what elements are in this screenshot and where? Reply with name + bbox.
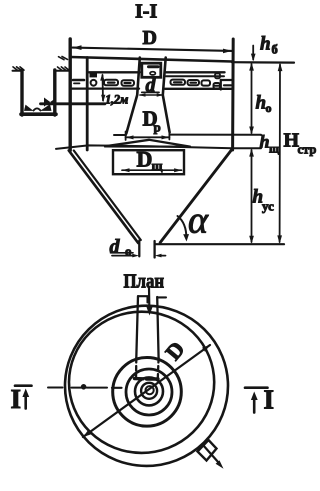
water band bottom line right [165,88,233,90]
svg-text:o: o [266,101,272,115]
dimension d0 arrows [112,255,133,257]
dimension line Dp [126,136,170,138]
right band box 4 [214,83,221,89]
ground hatching right [58,67,70,71]
svg-text:h: h [260,132,270,152]
svg-text:D: D [143,27,157,49]
central pipe left wall with flare [126,58,140,134]
valve (bowtie) on inlet pipe [44,98,50,107]
outflow arrow [203,445,219,463]
horizontal centerline [48,387,63,389]
pit bottom [21,112,56,116]
cone right slope [160,150,232,243]
level line at flare bottom left [114,134,126,136]
dimension 1,2m arrow [102,75,105,101]
svg-text:р: р [154,120,161,135]
right band box 1 [171,80,186,85]
section marker right [245,386,268,389]
inner rim circle [69,312,214,453]
band box 1 [104,80,118,86]
dimension d arrows [140,94,163,96]
tank left wall [68,39,71,151]
svg-text:щ: щ [269,142,280,156]
center circle ring 4 [141,383,157,399]
outlet stub (plan, lower right) [198,440,217,461]
pit bottom right wedge [40,104,52,111]
outer rim circle [65,306,228,466]
svg-text:I: I [11,384,22,414]
dimension hus line [251,150,253,242]
dashed channel bottom in plan [135,377,159,381]
dimension line D [73,48,233,51]
svg-text:ус: ус [262,199,274,214]
svg-text:стр: стр [298,143,317,157]
angle alpha arc [178,216,187,239]
water level mark in left trough [73,79,84,82]
right band box 3 [202,80,211,85]
svg-text:1,2м: 1,2м [105,93,129,107]
outlet right wall [153,241,155,258]
grass ticks at rim left of wall [59,57,68,60]
plan inlet channel left wall [136,296,138,358]
ground line left of pit [13,70,23,72]
bottom level line [155,243,284,245]
right trough inner wall [220,80,222,90]
dimension hb arrow [252,46,254,60]
level line flare bottom to right wall [169,134,261,136]
inflow arrow [148,288,151,307]
tank top rim [71,57,233,62]
channel right top tick [158,296,167,298]
shield box Dsh [113,150,184,174]
svg-text:План: План [124,270,165,292]
central distribution box [142,63,161,77]
svg-text:d: d [110,236,121,258]
svg-text:α: α [188,200,209,242]
water level mark in right trough [224,84,231,86]
center circle ring 1 [113,358,182,427]
section marker left [15,384,32,387]
central pipe right wall with flare [163,58,170,133]
center small circle [146,386,154,394]
inlet pipe from pit [41,102,106,105]
svg-text:D: D [137,147,153,172]
outlet left wall [138,241,140,257]
pit left wall [20,70,23,115]
channel top tick and jog [139,296,148,302]
right band small box 5 [215,74,220,79]
svg-text:б: б [272,43,278,57]
trough inner wall left [86,58,89,151]
pit bottom left wedge [24,105,34,111]
ground line right of pit [56,70,69,72]
tank right wall [231,39,235,150]
water surface second line right [166,75,224,77]
dimension Hstr line [279,65,281,243]
svg-text:D: D [160,336,189,364]
pit right wall [53,70,56,115]
svg-text:h: h [256,93,267,114]
cone left slope inner [74,151,141,241]
Dp witness ticks [126,131,170,140]
water band bottom line left [72,87,139,89]
cone left slope outer [69,151,138,244]
band box 2 [122,80,135,86]
svg-text:I-I: I-I [135,1,157,23]
center circle ring 3 [135,377,163,405]
water mark in box [149,65,159,68]
ground hatching left [13,67,24,71]
pit bottom dip arc [34,108,41,110]
svg-text:I: I [264,385,275,415]
rim witness tick right [232,61,294,64]
float circle in band [91,80,97,86]
plan inlet channel right wall [157,297,158,358]
water surface line right [166,71,225,73]
center circle ring 2 [126,369,172,415]
right band box 2 [188,80,200,85]
cylinder-cone junction line [56,145,261,149]
dark box at band left end [90,73,98,78]
dimension h0 line [251,64,253,133]
reflector shield triangle [105,140,190,147]
water surface line left [89,71,140,73]
dimension line Dsh [122,169,182,171]
svg-text:h: h [260,34,271,55]
plan diameter line D [83,345,210,437]
